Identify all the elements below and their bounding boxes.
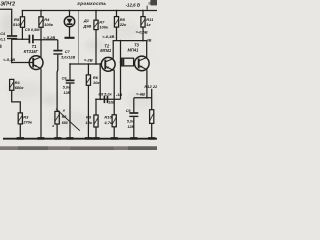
label -4V [145, 38, 151, 42]
ground blob trimmer [54, 137, 61, 140]
node dot R5 bottom [22, 38, 24, 40]
wire T2 emitter down [113, 70, 114, 115]
ground blob R3 [17, 137, 24, 140]
node dot base branch [99, 63, 101, 65]
label T1 [32, 44, 38, 49]
svg-text:≈-0,4В: ≈-0,4В [102, 34, 114, 39]
label KT315G [24, 49, 39, 54]
node dot base R6 [88, 63, 90, 65]
wire R4 to T1 collector [40, 40, 42, 57]
wire C4 to base node [11, 39, 13, 63]
label R1 680k [15, 80, 25, 90]
wire T2 base branch down [99, 64, 101, 99]
node dot jog [120, 40, 122, 42]
wire R1 bottom corner [12, 90, 21, 113]
svg-text:≈-6В: ≈-6В [136, 91, 145, 96]
ground blob C6 [66, 137, 73, 140]
svg-text:22к: 22к [119, 22, 127, 27]
node base horizontal to R5 and C5 [12, 38, 29, 40]
label R8 22k [119, 17, 127, 27]
bottom ground rail [3, 138, 157, 140]
transistor Q2 T2 [101, 57, 115, 71]
wire horizontal cap line y99 [96, 98, 121, 100]
label -12,6 V [126, 3, 141, 8]
svg-text:4,7к: 4,7к [103, 120, 113, 125]
label -0,4V [102, 34, 114, 39]
svg-text:100к: 100к [44, 22, 54, 27]
wire horizontal emitter node [134, 97, 152, 99]
label input ЭПЧ [0, 2, 15, 8]
label R5 510k [13, 17, 23, 27]
svg-text:R9: R9 [86, 115, 92, 120]
label R6 10k [93, 75, 100, 85]
resistor R3 [18, 113, 22, 138]
svg-text:≈-2В: ≈-2В [84, 58, 93, 63]
svg-text:МП41: МП41 [128, 48, 140, 53]
node dot C6 base wire [69, 63, 71, 65]
label C7 5,0x12V [61, 49, 75, 60]
svg-text:С7: С7 [65, 49, 71, 54]
label C4 value [0, 32, 6, 41]
transistor Q1 T1 [29, 56, 43, 70]
label R3 270k [22, 114, 33, 124]
capacitor C8 [104, 96, 107, 103]
svg-text:МП41: МП41 [100, 48, 112, 53]
resistor R12 [150, 89, 154, 138]
wire T2 collector jog to R8 [113, 41, 116, 59]
svg-text:12В: 12В [108, 101, 115, 105]
label -2V base T2 [84, 58, 93, 63]
trimmer arrow diagonal [56, 109, 80, 131]
smudge top right corner [147, 0, 157, 11]
wire base T1 [12, 62, 33, 64]
node dot base R7 [95, 63, 97, 65]
resistor R6 10k base lower [86, 64, 90, 138]
label громкость [77, 1, 106, 6]
label -0,5V [136, 29, 148, 34]
label trimmer letters [52, 109, 68, 129]
label R10 4,7k [103, 114, 113, 124]
label MP41 T2 [100, 48, 112, 53]
label C9 [126, 109, 135, 129]
label R7 100k [99, 19, 109, 29]
wire C5 to collector node [34, 39, 58, 41]
svg-text:ЭПЧ'2: ЭПЧ'2 [0, 2, 15, 8]
svg-text:510к: 510к [13, 22, 23, 27]
svg-text:КТ315Г: КТ315Г [24, 49, 39, 54]
svg-text:Д9В: Д9В [82, 23, 91, 28]
resistor base T3 [121, 58, 135, 66]
resistor R4 [39, 11, 43, 40]
ground blob R12 [148, 137, 155, 140]
label -5,2V [43, 35, 55, 40]
node dot rail R7 [95, 10, 97, 12]
resistor R8 22k [114, 11, 118, 41]
svg-text:5,0х: 5,0х [63, 86, 71, 90]
node dot emitter T3 [146, 97, 148, 99]
wire emitter T1 to ground [40, 69, 42, 138]
capacitor C6 [66, 64, 75, 138]
svg-text:12В: 12В [63, 91, 70, 95]
ground blob R10 [111, 137, 118, 140]
label -6V [136, 91, 145, 96]
paper mottling [7, 22, 154, 129]
label T3 [134, 43, 140, 48]
capacitor C5 feedback [29, 35, 33, 44]
resistor R10 4,7k [112, 115, 116, 138]
svg-text:10к: 10к [93, 80, 100, 85]
svg-text:-12,6 В: -12,6 В [126, 3, 141, 8]
node dot rail diode [69, 10, 71, 12]
wire T3 collector up [146, 41, 148, 58]
ground blob C9 [130, 137, 137, 140]
svg-text:0,1: 0,1 [0, 38, 5, 42]
speck left edge [0, 45, 2, 48]
trimmer resistor R2 [55, 111, 59, 137]
label -1V [116, 92, 122, 97]
svg-text:громкость: громкость [77, 1, 106, 6]
svg-text:12В: 12В [128, 125, 135, 129]
wire base T2 [70, 63, 101, 65]
label D1 D9V [82, 18, 91, 28]
label C8 [98, 93, 115, 105]
node dot y99 left [95, 98, 97, 100]
svg-text:5,0х: 5,0х [127, 120, 135, 124]
svg-text:R12 22: R12 22 [144, 84, 157, 89]
label R4 100k [44, 17, 54, 27]
wire input top-left [0, 9, 12, 35]
label C6 5,0x12V [62, 77, 71, 95]
resistor R5 [20, 11, 24, 40]
svg-text:R10: R10 [104, 114, 112, 119]
capacitor C4 [7, 36, 17, 39]
top supply rail [22, 10, 157, 12]
resistor R1 [10, 79, 14, 90]
node dot rail R4 [40, 10, 42, 12]
svg-text:5,0х12В: 5,0х12В [61, 56, 75, 60]
label R11 1k [146, 17, 154, 27]
svg-text:≈-0,5В: ≈-0,5В [136, 29, 148, 34]
diode D1 in circle [64, 11, 74, 38]
wire faint vertical x78 [77, 11, 79, 65]
svg-text:100к: 100к [99, 25, 109, 30]
resistor R7 [94, 11, 98, 65]
grey bottom band [0, 146, 157, 150]
wire vertical feedback x120 [120, 41, 122, 100]
node dot rail R8 [116, 10, 118, 12]
label -5,1V base T1 [3, 57, 15, 62]
transistor Q3 T3 [135, 56, 150, 71]
svg-text:680к: 680к [15, 85, 25, 90]
resistor R9 15k [94, 99, 98, 138]
node dot rail R11 [142, 10, 144, 12]
node dot y99 x100 [99, 98, 101, 100]
label R9 15k [85, 115, 92, 125]
label T2 [104, 44, 110, 49]
svg-text:270к: 270к [22, 120, 33, 125]
label R12 [144, 84, 158, 89]
capacitor C7 electrolytic mid [53, 40, 62, 112]
svg-text:≈-5,1В: ≈-5,1В [3, 57, 15, 62]
svg-text:С8 5,0х: С8 5,0х [98, 93, 112, 97]
label MP41 T3 [128, 48, 140, 53]
node dot base T3 [120, 62, 122, 64]
svg-text:э: э [52, 124, 54, 128]
label C5 value [25, 27, 40, 32]
wire horizontal collector rail T2-T3 [117, 40, 147, 42]
svg-text:15к: 15к [85, 120, 92, 125]
node dot R11 bottom [142, 40, 144, 42]
svg-text:-1В: -1В [116, 92, 122, 97]
svg-text:С5 0,5М: С5 0,5М [25, 27, 40, 32]
paper background [0, 0, 157, 150]
resistor R11 1k [141, 11, 145, 41]
chassis bar under diode [65, 37, 75, 39]
ground blob T1 emitter [37, 137, 44, 140]
svg-text:680: 680 [62, 121, 68, 125]
svg-text:R2: R2 [62, 115, 67, 119]
capacitor C9 electrolytic [129, 98, 138, 138]
wire T3 emitter down [146, 70, 148, 98]
svg-text:≈-5,2В: ≈-5,2В [43, 35, 55, 40]
ground blob R6 [85, 137, 92, 140]
node dot collector T1 [40, 39, 42, 41]
ground blob R9 [92, 137, 99, 140]
